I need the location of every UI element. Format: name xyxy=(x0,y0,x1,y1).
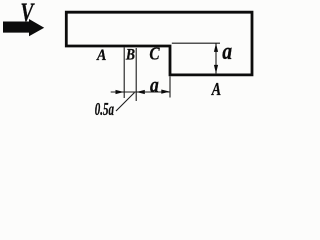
extension line at step level xyxy=(172,42,220,44)
svg-text:A: A xyxy=(211,81,221,100)
svg-text:C: C xyxy=(149,43,160,63)
extension line right of B xyxy=(135,48,137,101)
arrowhead down xyxy=(214,65,218,74)
svg-text:a: a xyxy=(150,73,159,97)
extension line below step corner xyxy=(169,76,171,97)
svg-text:0.5a: 0.5a xyxy=(95,100,115,119)
stepped plate outline xyxy=(66,12,252,75)
svg-text:A: A xyxy=(96,47,106,64)
leader line from 0.5a xyxy=(116,93,135,112)
vertical dimension line a xyxy=(215,43,217,73)
horizontal dimension line xyxy=(111,91,170,93)
flow arrow xyxy=(3,19,44,36)
arrowhead up xyxy=(214,43,218,52)
arrowhead right at step wall xyxy=(161,90,170,94)
arrowhead right at B-left line xyxy=(116,90,125,94)
svg-text:a: a xyxy=(222,37,232,64)
svg-text:B: B xyxy=(125,47,135,64)
arrowhead left at B-right line xyxy=(136,90,145,94)
extension line left of B xyxy=(123,48,125,99)
